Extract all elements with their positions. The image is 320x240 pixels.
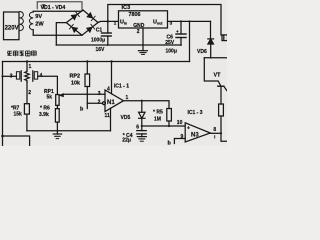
op-amp IC1-1 N1 [105,90,124,112]
wire bridge plus to IC3 pin1 [98,21,118,22]
ground symbol below C4 [137,136,146,138]
svg-text:1: 1 [29,64,32,70]
svg-text:VT: VT [214,73,222,79]
svg-text:VD5: VD5 [121,115,131,121]
top rail +9V [108,5,221,36]
svg-text:8: 8 [213,127,216,133]
svg-text:VD6: VD6 [197,49,207,55]
wire VD6 anode to VT collector and right edge [204,57,227,59]
potentiometer RP1 5k [56,95,59,106]
bridge diode VD2 top-right [87,13,92,18]
svg-text:220V: 220V [5,26,19,32]
svg-text:IC1 - 3: IC1 - 3 [188,110,203,116]
ground rail [56,44,180,46]
svg-text:5k: 5k [47,95,53,101]
bracket over VD1-VD4 [37,2,82,10]
N1 pin2 wire node b [87,94,102,103]
N1 pin2 input bubble [103,102,106,105]
wire secondary bottom to bridge AC bottom [33,30,82,36]
svg-text:4: 4 [107,87,110,93]
svg-text:11: 11 [105,113,111,119]
bottom ground rail [27,130,111,132]
potentiometer RP2 10k [86,62,88,75]
svg-text:22μ: 22μ [122,138,131,144]
rail B +6V horizontal [3,61,190,63]
IC3 pin3 output wire +6V [168,20,211,22]
svg-text:3.9k: 3.9k [39,112,49,118]
wire +6V down to rail B [189,21,191,61]
ground symbol below R6 [56,131,58,134]
gas sensor left electrode [20,71,22,81]
svg-text:N1: N1 [107,100,115,106]
svg-text:3: 3 [98,91,101,97]
transformer T primary winding box 220V [4,12,20,40]
svg-text:+: + [176,29,179,34]
arrow i below pin8 wire [214,135,216,138]
op-amp IC1-3 N3 [185,123,210,142]
wire N3 output down to right edge [221,133,227,141]
N3 pin9 wire node b [174,139,185,144]
IC3 pin2 GND wire [142,28,144,45]
IC3 7806 box [119,11,168,28]
svg-text:C1: C1 [96,28,103,34]
node 6 wire to N3 pin10 [142,125,185,127]
wire RP1 wiper to N1 pin3 [63,93,105,95]
svg-text:9V: 9V [35,14,42,20]
svg-text:10: 10 [177,120,183,126]
svg-text:16V: 16V [96,47,106,53]
svg-text:3: 3 [10,73,13,79]
svg-text:1: 1 [114,21,117,26]
gas sensor heater zigzag [25,70,29,82]
svg-text:25V: 25V [165,40,175,46]
N1 pin11 ground wire [110,108,112,130]
resistor R6 3.9k [56,105,58,108]
wire bridge minus down to ground rail [56,23,66,45]
svg-text:7806: 7806 [129,12,141,18]
bottom-left exit wires [3,136,30,146]
svg-text:RP2: RP2 [70,74,81,80]
gas sensor pin1 wire [26,62,28,71]
relay box K (cut at right edge) [222,35,228,41]
resistor R5 1M [167,109,172,122]
capacitor C4 22u [141,126,143,131]
svg-text:15k: 15k [14,112,23,118]
svg-text:4: 4 [40,73,43,79]
diode VD5 [141,101,143,113]
transformer T secondary coil arcs [29,12,33,30]
capacitor C1 1000u 16V [107,21,109,33]
svg-text:+: + [187,126,190,132]
svg-text:1M: 1M [154,116,161,122]
svg-text:VD1 - VD4: VD1 - VD4 [41,5,66,11]
svg-text:100μ: 100μ [166,49,177,55]
transformer T primary coil arcs [20,12,24,31]
svg-text:IC3: IC3 [122,5,131,11]
svg-text:9: 9 [181,134,184,140]
label gas sensor (CJK simulated) [7,51,36,57]
svg-text:2W: 2W [35,21,44,27]
svg-text:6: 6 [136,125,139,131]
svg-text:* R6: * R6 [40,106,50,112]
transistor VT [204,58,220,86]
N3 output wire pin8 [210,132,221,134]
N1 output wire [124,101,170,109]
svg-text:2: 2 [137,29,140,35]
svg-text:2: 2 [28,90,31,96]
capacitor C6 100u 25V [180,21,182,34]
svg-text:1000μ: 1000μ [91,37,105,43]
svg-text:IC1 - 1: IC1 - 1 [114,84,129,90]
svg-text:N3: N3 [191,133,199,139]
bridge diode VD1 top-left [71,15,76,20]
svg-text:1: 1 [126,95,129,101]
svg-text:10k: 10k [71,81,80,87]
left edge vertical wire [2,62,4,147]
bridge diode VD4 bottom-right [87,27,92,32]
gas sensor right electrode [32,71,34,81]
N1 pin4 power wire [111,62,113,94]
gas sensor pin2 wire [26,82,28,104]
resistor R7 15k [24,104,29,114]
bridge diode VD3 bottom-left [72,27,77,32]
resistor at VT base [219,104,224,116]
diode VD6 [210,21,212,38]
bridge rectifier VD1-VD4 diamond [66,10,98,35]
svg-text:* R5: * R5 [153,110,163,116]
wire secondary top to bridge AC top [33,10,83,12]
svg-text:2: 2 [98,99,101,105]
ground symbol near IC3 [142,45,144,51]
svg-text:3: 3 [170,20,173,25]
